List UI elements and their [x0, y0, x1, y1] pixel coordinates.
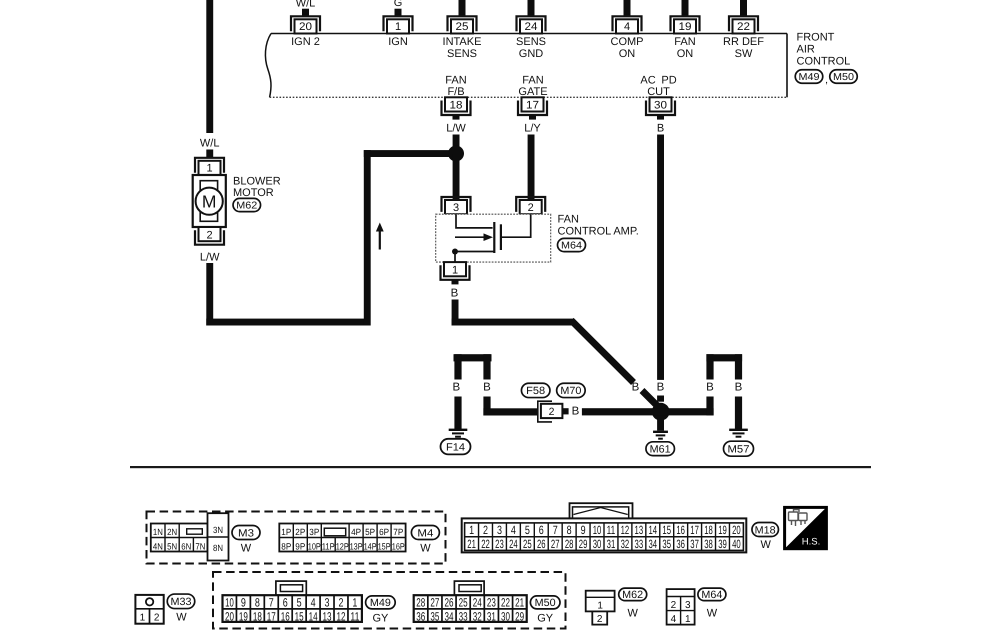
- wire from junction to fan control amp pin 3: [453, 154, 460, 201]
- svg-text:M57: M57: [728, 443, 750, 455]
- svg-text:33: 33: [459, 609, 468, 623]
- svg-text:3: 3: [325, 596, 330, 610]
- svg-text:10: 10: [225, 596, 234, 610]
- svg-text:SENS: SENS: [447, 48, 477, 60]
- svg-text:6: 6: [283, 596, 288, 610]
- label BLOWER MOTOR M62: [233, 175, 281, 211]
- fet channel bar: [500, 224, 502, 250]
- svg-text:28: 28: [416, 596, 425, 610]
- svg-text:M64: M64: [561, 241, 582, 252]
- svg-text:4: 4: [511, 523, 516, 537]
- svg-text:15: 15: [662, 523, 671, 537]
- blower motor terminal 2: [195, 227, 224, 245]
- label FRONT AIR CONTROL M49 M50: [795, 32, 857, 87]
- svg-text:L/Y: L/Y: [524, 123, 541, 135]
- svg-text:IGN: IGN: [388, 36, 408, 48]
- wire W/L from top to blower motor: [206, 0, 213, 133]
- svg-text:COMP: COMP: [611, 36, 644, 48]
- svg-text:16P: 16P: [392, 542, 405, 552]
- svg-text:G: G: [394, 0, 403, 9]
- svg-text:20: 20: [225, 609, 234, 623]
- terminal 25 INTAKE SENS: [443, 16, 482, 60]
- wire to pin 22: [740, 0, 747, 16]
- label M64 W: [698, 588, 726, 619]
- wire from terminal 30 down: [657, 135, 664, 380]
- svg-text:13: 13: [635, 523, 644, 537]
- terminal 18 FAN F/B: [442, 97, 471, 134]
- svg-text:26: 26: [445, 596, 454, 610]
- svg-text:1: 1: [452, 265, 458, 277]
- svg-text:RR DEF: RR DEF: [723, 36, 764, 48]
- wire top bar of F14 branch: [454, 354, 492, 361]
- connector M33: [135, 595, 163, 624]
- svg-text:32: 32: [473, 609, 482, 623]
- fan control amp U1 box: [436, 214, 551, 262]
- svg-text:29: 29: [579, 537, 588, 551]
- wire W/L to pin 20: [296, 0, 316, 16]
- dashed group box M3 M4: [147, 512, 446, 564]
- svg-text:L/W: L/W: [200, 252, 220, 264]
- svg-text:1: 1: [597, 601, 603, 612]
- svg-text:5: 5: [525, 523, 530, 537]
- svg-text:8N: 8N: [213, 543, 223, 553]
- svg-text:36: 36: [676, 537, 685, 551]
- svg-text:10P: 10P: [308, 542, 321, 552]
- label F58 M70: [521, 383, 585, 397]
- svg-text:18: 18: [450, 100, 463, 112]
- separator line: [130, 466, 871, 468]
- fet gate lead from pin 3: [456, 214, 493, 228]
- svg-text:31: 31: [607, 537, 616, 551]
- svg-text:M49: M49: [799, 72, 820, 83]
- svg-text:FAN: FAN: [445, 75, 466, 87]
- svg-text:FAN: FAN: [674, 36, 695, 48]
- wire horizontal to junction: [364, 150, 456, 157]
- fet source lead: [455, 251, 494, 253]
- svg-text:10: 10: [593, 523, 602, 537]
- svg-text:16: 16: [676, 523, 685, 537]
- svg-text:2: 2: [154, 613, 160, 624]
- svg-text:6N: 6N: [181, 542, 191, 552]
- label M18 W: [752, 523, 779, 552]
- svg-text:22: 22: [737, 21, 750, 33]
- svg-text:23: 23: [495, 537, 504, 551]
- wire from fusible link to junction: [582, 408, 661, 415]
- wire right branch left leg upper: [706, 354, 713, 379]
- connector M49 latch: [276, 581, 306, 595]
- svg-text:38: 38: [704, 537, 713, 551]
- wire left leg lower (F14): [454, 397, 461, 430]
- svg-text:M3: M3: [238, 527, 254, 539]
- fet drain lead to pin 2: [501, 214, 531, 237]
- connector M3 grid: [151, 513, 229, 560]
- wire L/W down from blower motor: [206, 263, 213, 326]
- svg-text:F14: F14: [446, 441, 465, 453]
- wire to pin 25: [459, 0, 466, 16]
- svg-text:20: 20: [299, 21, 312, 33]
- svg-text:2: 2: [549, 406, 555, 418]
- svg-text:W: W: [628, 608, 639, 620]
- connector M18 latch: [570, 503, 633, 522]
- svg-text:26: 26: [537, 537, 546, 551]
- current direction arrow: [376, 223, 384, 250]
- fet internal junction: [452, 249, 458, 255]
- svg-text:32: 32: [621, 537, 630, 551]
- svg-text:B: B: [657, 382, 665, 394]
- svg-text:8P: 8P: [281, 542, 291, 552]
- label AC PD CUT: [640, 75, 676, 99]
- svg-text:19: 19: [239, 609, 248, 623]
- terminal 1 IGN: [384, 16, 413, 48]
- svg-text:B: B: [735, 382, 743, 394]
- svg-text:W/L: W/L: [200, 138, 220, 150]
- svg-text:30: 30: [654, 100, 667, 112]
- svg-text:MOTOR: MOTOR: [233, 187, 274, 199]
- svg-text:17: 17: [526, 100, 539, 112]
- svg-text:FRONT: FRONT: [797, 32, 835, 44]
- svg-text:5N: 5N: [167, 542, 177, 552]
- svg-text:M33: M33: [171, 596, 192, 608]
- svg-text:IGN 2: IGN 2: [291, 36, 320, 48]
- svg-text:40: 40: [732, 537, 741, 551]
- svg-text:7N: 7N: [195, 542, 205, 552]
- connector M49 grid: [223, 595, 362, 623]
- wire stub into blower pin 1: [206, 150, 213, 158]
- svg-text:7: 7: [269, 596, 274, 610]
- svg-text:22: 22: [501, 596, 510, 610]
- svg-text:H.S.: H.S.: [802, 537, 820, 548]
- fet source arrow: [455, 233, 493, 241]
- svg-text:24: 24: [473, 596, 482, 610]
- svg-text:13P: 13P: [350, 542, 363, 552]
- connector M62 view: [586, 591, 615, 625]
- svg-text:B: B: [483, 382, 491, 394]
- svg-text:CUT: CUT: [647, 86, 670, 98]
- svg-text:F/B: F/B: [447, 86, 464, 98]
- svg-text:34: 34: [445, 609, 454, 623]
- svg-text:20: 20: [732, 523, 741, 537]
- wire right leg elbow to fusible link: [483, 397, 537, 416]
- svg-text:3P: 3P: [309, 527, 319, 537]
- svg-text:F58: F58: [526, 385, 545, 397]
- svg-text:8: 8: [255, 596, 260, 610]
- svg-text:BLOWER: BLOWER: [233, 175, 281, 187]
- label M33 W: [167, 594, 195, 623]
- svg-text:PD: PD: [661, 75, 676, 87]
- svg-text:AIR: AIR: [797, 44, 815, 56]
- svg-text:9: 9: [581, 523, 586, 537]
- wire to pin 4: [624, 0, 631, 16]
- svg-text:M61: M61: [650, 443, 671, 455]
- svg-text:M64: M64: [701, 589, 722, 601]
- wire vertical riser: [364, 150, 371, 325]
- junction node A: [448, 146, 464, 162]
- svg-text:9: 9: [241, 596, 246, 610]
- svg-text:M70: M70: [560, 385, 581, 397]
- wire G to pin 1: [394, 0, 403, 16]
- svg-text:25: 25: [459, 596, 468, 610]
- svg-text:2: 2: [671, 600, 677, 611]
- svg-text:9P: 9P: [295, 542, 305, 552]
- svg-text:18: 18: [704, 523, 713, 537]
- svg-text:7: 7: [553, 523, 558, 537]
- terminal 4 COMP ON: [611, 16, 644, 60]
- fusible link 2 (F58/M70): [538, 401, 569, 422]
- svg-text:16: 16: [281, 609, 290, 623]
- ground M61: [646, 419, 675, 456]
- svg-text:3: 3: [497, 523, 502, 537]
- svg-text:4P: 4P: [351, 527, 361, 537]
- svg-text:2N: 2N: [167, 527, 177, 537]
- svg-text:1: 1: [352, 596, 357, 610]
- svg-text:CONTROL AMP.: CONTROL AMP.: [558, 226, 639, 238]
- svg-text:37: 37: [690, 537, 699, 551]
- svg-text:ON: ON: [677, 48, 694, 60]
- svg-text:M62: M62: [622, 589, 643, 601]
- svg-text:FAN: FAN: [558, 214, 579, 226]
- svg-text:1N: 1N: [153, 527, 163, 537]
- svg-text:6: 6: [539, 523, 544, 537]
- svg-text:SENS: SENS: [516, 36, 546, 48]
- svg-text:M18: M18: [755, 524, 776, 536]
- svg-text:33: 33: [635, 537, 644, 551]
- label FAN GATE: [518, 75, 547, 99]
- svg-text:25: 25: [523, 537, 532, 551]
- svg-text:7P: 7P: [393, 527, 403, 537]
- svg-text:31: 31: [487, 609, 496, 623]
- terminal 20 IGN 2: [291, 16, 320, 48]
- svg-text:M50: M50: [833, 72, 854, 83]
- label M4 W: [411, 526, 439, 555]
- svg-text:GND: GND: [519, 48, 544, 60]
- svg-text:M50: M50: [535, 597, 556, 609]
- ground M57: [724, 429, 754, 457]
- svg-text:4: 4: [671, 614, 677, 625]
- svg-text:30: 30: [501, 609, 510, 623]
- svg-text:2: 2: [483, 523, 488, 537]
- wire diagonal lower segment: [642, 391, 658, 407]
- svg-text:M62: M62: [236, 201, 257, 212]
- svg-text:W: W: [241, 543, 252, 555]
- svg-text:B: B: [451, 288, 459, 300]
- ground F14: [441, 429, 471, 455]
- terminal 22 RR DEF SW: [723, 16, 764, 60]
- svg-text:5P: 5P: [365, 527, 375, 537]
- svg-text:36: 36: [416, 609, 425, 623]
- connector M50 latch: [454, 581, 484, 595]
- terminal 30 AC PD CUT: [646, 97, 675, 134]
- svg-text:GATE: GATE: [518, 86, 547, 98]
- terminal 24 SENS GND: [516, 16, 546, 60]
- wire from terminal 17 down to amp pin 2: [528, 135, 535, 201]
- svg-text:17: 17: [267, 609, 276, 623]
- svg-text:29: 29: [515, 609, 524, 623]
- svg-text:2: 2: [597, 614, 603, 625]
- svg-text:2: 2: [338, 596, 343, 610]
- svg-text:35: 35: [662, 537, 671, 551]
- wire right leg upper: [483, 354, 490, 379]
- svg-text:CONTROL: CONTROL: [797, 56, 851, 68]
- wire right branch right leg upper: [735, 354, 742, 379]
- svg-text:W: W: [761, 539, 772, 551]
- label FAN F/B: [445, 75, 466, 99]
- svg-text:4: 4: [311, 596, 316, 610]
- svg-text:B: B: [706, 382, 714, 394]
- svg-text:22: 22: [481, 537, 490, 551]
- svg-text:W: W: [707, 608, 718, 620]
- svg-text:12P: 12P: [336, 542, 349, 552]
- fan control amp terminal 1: [441, 262, 470, 284]
- wire horizontal elbow: [206, 319, 370, 326]
- fet lead to pin 1: [454, 252, 456, 263]
- svg-text:ON: ON: [619, 48, 636, 60]
- wire right branch right leg lower: [735, 397, 742, 430]
- wire horizontal from amp to diagonal: [452, 319, 574, 326]
- svg-text:27: 27: [551, 537, 560, 551]
- svg-text:25: 25: [456, 21, 469, 33]
- svg-text:21: 21: [467, 537, 476, 551]
- svg-text:1: 1: [206, 163, 212, 175]
- terminal 17 FAN GATE: [518, 97, 547, 134]
- label M50 GY: [530, 596, 560, 625]
- blower motor M62 body: [193, 175, 226, 227]
- svg-text:W/L: W/L: [296, 0, 316, 10]
- wire stub above junction: [657, 396, 664, 402]
- svg-text:1: 1: [685, 614, 691, 625]
- connector M50 grid: [414, 595, 527, 623]
- svg-text:19: 19: [718, 523, 727, 537]
- svg-text:5: 5: [297, 596, 302, 610]
- svg-text:21: 21: [515, 596, 524, 610]
- svg-text:15P: 15P: [378, 542, 391, 552]
- svg-text:W: W: [176, 612, 187, 624]
- svg-text:3N: 3N: [213, 525, 223, 535]
- svg-text:6P: 6P: [379, 527, 389, 537]
- svg-text:1P: 1P: [281, 527, 291, 537]
- svg-text:13: 13: [323, 609, 332, 623]
- svg-text:19: 19: [679, 21, 692, 33]
- svg-text:1: 1: [469, 523, 474, 537]
- svg-text:4N: 4N: [153, 542, 163, 552]
- connector M4 grid: [279, 524, 405, 552]
- wire top bar of M57 branch: [706, 354, 742, 361]
- svg-text:12: 12: [336, 609, 345, 623]
- svg-text:B: B: [572, 405, 580, 417]
- svg-text:M4: M4: [417, 527, 433, 539]
- svg-text:4: 4: [624, 21, 630, 33]
- svg-text:SW: SW: [735, 48, 753, 60]
- svg-text:28: 28: [565, 537, 574, 551]
- svg-text:3: 3: [685, 600, 691, 611]
- wire left leg upper (F14): [454, 354, 461, 379]
- svg-text:11: 11: [350, 609, 359, 623]
- label M3 W: [232, 526, 260, 555]
- dashed group box M49 M50: [213, 572, 566, 629]
- terminal 19 FAN ON: [671, 16, 700, 60]
- wire to pin 24: [528, 0, 535, 16]
- svg-text:17: 17: [690, 523, 699, 537]
- svg-text:23: 23: [487, 596, 496, 610]
- connector M18 body: [462, 518, 747, 552]
- svg-text:B: B: [657, 123, 664, 135]
- svg-text:W: W: [420, 543, 431, 555]
- svg-text:GY: GY: [372, 613, 389, 625]
- svg-text:FAN: FAN: [522, 75, 543, 87]
- svg-text:14P: 14P: [364, 542, 377, 552]
- wire from junction to right: [661, 408, 714, 415]
- svg-text:AC: AC: [640, 75, 655, 87]
- svg-text:27: 27: [430, 596, 439, 610]
- svg-text:2: 2: [528, 202, 534, 214]
- svg-text:11P: 11P: [322, 542, 335, 552]
- svg-text:2: 2: [206, 229, 212, 241]
- wire to pin 19: [682, 0, 689, 16]
- svg-text:14: 14: [648, 523, 657, 537]
- svg-text:34: 34: [648, 537, 657, 551]
- svg-text:18: 18: [253, 609, 262, 623]
- svg-text:14: 14: [309, 609, 318, 623]
- svg-text:30: 30: [593, 537, 602, 551]
- wire right branch left leg lower: [706, 397, 713, 416]
- fan control amp terminal 3: [442, 197, 471, 214]
- svg-text:,: ,: [825, 74, 828, 86]
- svg-text:B: B: [632, 382, 640, 394]
- svg-text:1: 1: [395, 21, 401, 33]
- label M62 W: [619, 588, 647, 619]
- svg-text:8: 8: [567, 523, 572, 537]
- svg-text:35: 35: [430, 609, 439, 623]
- svg-text:1: 1: [140, 613, 146, 624]
- svg-text:11: 11: [607, 523, 616, 537]
- svg-text:39: 39: [718, 537, 727, 551]
- svg-text:B: B: [452, 382, 460, 394]
- badge H.S.: [785, 507, 827, 548]
- connector M64 view: [667, 589, 695, 625]
- svg-text:12: 12: [621, 523, 630, 537]
- svg-text:2P: 2P: [295, 527, 305, 537]
- svg-text:M49: M49: [370, 597, 391, 609]
- blower motor terminal 1: [195, 158, 224, 175]
- wire from terminal 18 down: [453, 135, 460, 154]
- fan control amp terminal 2: [516, 197, 545, 214]
- fet gate bar: [493, 222, 495, 253]
- svg-text:15: 15: [295, 609, 304, 623]
- svg-text:24: 24: [525, 21, 538, 33]
- svg-text:INTAKE: INTAKE: [443, 36, 482, 48]
- wire from amp pin 1 down: [452, 300, 459, 326]
- svg-text:24: 24: [509, 537, 518, 551]
- junction node B main ground: [652, 403, 670, 421]
- front air control box: [265, 34, 787, 98]
- wire diagonal upper segment: [571, 320, 633, 382]
- svg-text:M: M: [202, 192, 217, 212]
- label FAN CONTROL AMP M64: [558, 214, 639, 252]
- svg-text:GY: GY: [537, 613, 554, 625]
- label M49 GY: [366, 596, 396, 625]
- svg-text:L/W: L/W: [446, 123, 466, 135]
- svg-text:3: 3: [453, 202, 459, 214]
